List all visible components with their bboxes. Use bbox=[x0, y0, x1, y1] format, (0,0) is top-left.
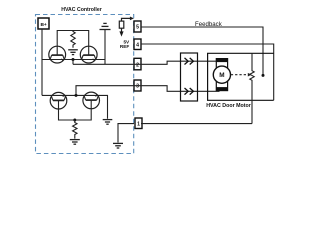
wire top base rail bbox=[57, 31, 88, 56]
svg-text:HVAC Door Motor: HVAC Door Motor bbox=[206, 103, 251, 109]
wire arrow down from R2 bbox=[119, 31, 123, 36]
transistor Q2 (top right) bbox=[80, 46, 97, 63]
wire node B riser to pin 3 line bbox=[76, 86, 141, 96]
wire B+ vertical rail bbox=[41, 29, 43, 95]
potentiometer R3 bbox=[250, 53, 254, 123]
svg-text:B+: B+ bbox=[40, 22, 46, 28]
wire 5V REF: pin 4 to pot top rail bbox=[141, 44, 274, 100]
svg-text:1: 1 bbox=[137, 121, 140, 127]
node B junction dot bbox=[75, 94, 78, 97]
resistor R1 (base rail to ground) bbox=[71, 31, 75, 48]
node wiper dot bbox=[262, 74, 265, 77]
connector pin 5 bbox=[134, 21, 141, 32]
wiper arrow bbox=[248, 73, 252, 77]
capacitor C1 (inverted chassis stack at top of pin-2 net) bbox=[100, 23, 111, 29]
resistor R2 (pull-up at pin 5) bbox=[119, 18, 130, 32]
ground (pin 1) bbox=[113, 143, 123, 148]
wire bottom emitter/collector chord bbox=[42, 95, 108, 118]
B+ terminal box bbox=[38, 18, 49, 29]
label 5V REF bbox=[120, 39, 130, 48]
ground (bottom right transistor) bbox=[103, 120, 113, 125]
wire Feedback: pin 5 to pot wiper bbox=[141, 27, 263, 75]
transistor Q4 (bottom right) bbox=[83, 92, 100, 109]
node C junction dot bbox=[73, 119, 76, 122]
transistor Q1 (top left) bbox=[49, 46, 66, 63]
wire node A drop to pin 2 line bbox=[72, 60, 74, 65]
wire pin 1 to pot bottom bbox=[141, 123, 252, 125]
svg-text:4: 4 bbox=[136, 42, 139, 48]
connector pin 1 bbox=[135, 118, 142, 129]
wire pin 2 to motor (upper drive) bbox=[73, 61, 218, 64]
wire base tie (bottom pair) bbox=[59, 100, 92, 120]
svg-text:2: 2 bbox=[136, 62, 139, 68]
motor M1 body bbox=[213, 59, 230, 91]
connector pin 2 bbox=[134, 58, 141, 70]
connector pin 3 bbox=[134, 80, 141, 91]
ground (under R1) bbox=[68, 50, 78, 55]
connector (wire harness) box bbox=[181, 53, 198, 101]
svg-text:M: M bbox=[219, 72, 224, 79]
ground (under R4) bbox=[70, 140, 80, 145]
svg-text:5: 5 bbox=[136, 25, 139, 31]
resistor R4 (base tie to ground) bbox=[73, 120, 77, 139]
chevrons upper harness contact bbox=[185, 58, 194, 65]
transistor Q3 (bottom left) bbox=[50, 92, 67, 109]
wire pin 3 to motor (lower drive) bbox=[141, 86, 220, 92]
mechanical link dashed (motor shaft to pot) bbox=[231, 74, 248, 76]
svg-text:REF: REF bbox=[120, 44, 130, 49]
wire top emitter/collector chord bbox=[42, 59, 105, 61]
node A junction dot bbox=[72, 58, 75, 61]
wire arrow into pin 5 bbox=[130, 17, 134, 21]
chevrons lower harness contact bbox=[185, 88, 194, 95]
HVAC Controller dashed boundary bbox=[36, 15, 134, 154]
wire capacitor lead down to pin 2 line bbox=[104, 30, 106, 65]
connector pin 4 bbox=[134, 39, 141, 50]
HVAC Door Motor enclosure bbox=[208, 53, 274, 100]
svg-text:3: 3 bbox=[136, 84, 139, 90]
wire pin 1 to ground bbox=[118, 124, 134, 143]
svg-text:HVAC Controller: HVAC Controller bbox=[61, 7, 102, 13]
